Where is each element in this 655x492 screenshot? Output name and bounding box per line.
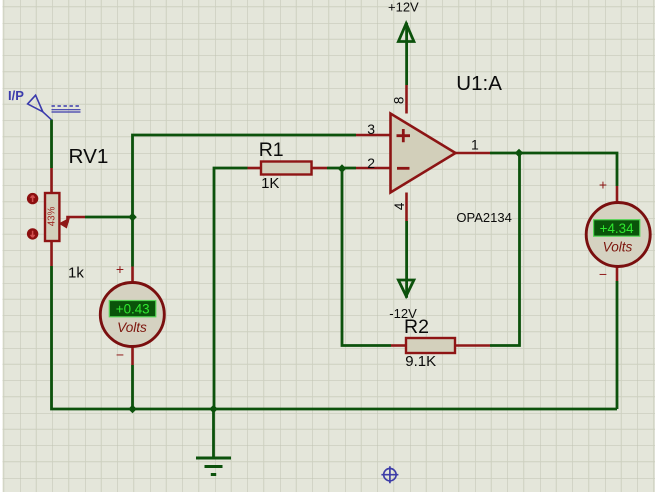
svg-text:4: 4	[392, 202, 407, 210]
svg-text:R1: R1	[259, 139, 284, 161]
svg-text:+0.43: +0.43	[116, 302, 150, 317]
svg-text:43%: 43%	[47, 206, 58, 226]
svg-text:I/P: I/P	[8, 88, 24, 103]
svg-text:R2: R2	[404, 316, 429, 338]
svg-text:3: 3	[367, 121, 375, 137]
svg-text:−: −	[116, 347, 124, 363]
svg-text:+4.34: +4.34	[600, 221, 634, 236]
svg-text:1K: 1K	[261, 175, 279, 192]
svg-text:OPA2134: OPA2134	[456, 210, 511, 225]
svg-text:1k: 1k	[68, 265, 84, 282]
svg-text:Volts: Volts	[603, 240, 633, 255]
svg-text:2: 2	[367, 155, 375, 171]
svg-text:+: +	[116, 261, 124, 277]
svg-text:8: 8	[392, 97, 407, 105]
svg-text:RV1: RV1	[69, 145, 109, 168]
svg-text:9.1K: 9.1K	[405, 353, 436, 370]
svg-text:1: 1	[471, 136, 479, 152]
svg-text:+: +	[599, 177, 607, 193]
svg-text:+12V: +12V	[388, 0, 419, 15]
svg-text:Volts: Volts	[117, 320, 147, 335]
svg-text:−: −	[599, 266, 607, 282]
svg-text:U1:A: U1:A	[456, 72, 502, 95]
